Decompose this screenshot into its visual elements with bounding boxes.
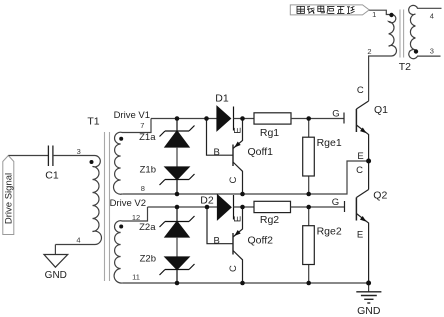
svg-text:Z1a: Z1a — [139, 132, 156, 143]
svg-text:C: C — [357, 85, 364, 96]
svg-text:G: G — [332, 108, 339, 119]
svg-text:8: 8 — [141, 184, 145, 193]
svg-text:C: C — [228, 176, 239, 183]
svg-text:3: 3 — [77, 147, 81, 156]
svg-text:3: 3 — [430, 47, 434, 56]
transistor Q1 (IGBT) — [344, 101, 369, 161]
svg-text:E: E — [357, 151, 363, 162]
svg-text:Z2a: Z2a — [139, 222, 156, 233]
transformer T2 winding 4-3 — [409, 5, 442, 58]
T2 winding 4-3 polarity dot — [414, 49, 418, 53]
svg-text:Qoff1: Qoff1 — [248, 146, 274, 158]
wire T1 pin 4 to GND — [54, 245, 56, 255]
wire between Z1a and Z1b — [176, 147, 178, 167]
capacitor C1 — [48, 146, 53, 167]
svg-text:D2: D2 — [200, 195, 214, 207]
wire Rg1 to Q1 gate — [291, 118, 344, 120]
T2 winding 1-2 polarity dot — [389, 13, 393, 17]
svg-text:C: C — [356, 165, 363, 176]
wire C1 to T1 pin 3 — [53, 155, 95, 157]
node bus voltage pennant — [290, 5, 369, 15]
svg-text:Drive V1: Drive V1 — [114, 110, 150, 121]
zener Z2a — [160, 207, 195, 237]
wire D1 cathode to Rg1 — [234, 118, 255, 120]
svg-text:E: E — [357, 230, 363, 241]
wire pin8 rail to Q1 emitter node — [122, 161, 368, 194]
wire Drive V1 rail — [151, 118, 217, 120]
svg-text:2: 2 — [367, 47, 371, 56]
svg-text:B: B — [214, 147, 220, 158]
resistor Rge2 — [308, 207, 310, 283]
zener Z1a — [160, 119, 195, 148]
transformer T1 secondary winding 12-11 — [114, 207, 147, 283]
wire D2 cathode to Rg2 — [234, 206, 255, 208]
T1 secondary 7-8 polarity dot — [119, 137, 123, 141]
svg-text:Drive V2: Drive V2 — [110, 198, 146, 209]
svg-text:Q1: Q1 — [374, 104, 388, 116]
svg-text:T1: T1 — [87, 116, 99, 128]
wire Rg2 to Q2 gate — [291, 206, 345, 208]
svg-text:GND: GND — [357, 305, 381, 317]
resistor Rge1 — [308, 119, 310, 195]
svg-text:E: E — [232, 216, 243, 222]
ground GND (power earth) — [368, 283, 370, 292]
svg-text:T2: T2 — [399, 61, 411, 73]
svg-text:Rg1: Rg1 — [260, 127, 279, 139]
svg-text:D1: D1 — [215, 93, 229, 105]
svg-text:12: 12 — [132, 213, 140, 222]
svg-text:Rg2: Rg2 — [260, 214, 279, 226]
svg-text:Z2b: Z2b — [140, 254, 156, 265]
T1 primary polarity dot — [90, 160, 94, 164]
diode D1 — [217, 107, 234, 131]
wire pennant to T2 pin 1 — [369, 10, 390, 14]
wire between Z2a and Z2b — [176, 237, 178, 257]
svg-text:Qoff2: Qoff2 — [248, 235, 274, 247]
node bus voltage text (CJK glyphs) — [297, 6, 355, 14]
transformer T1 secondary winding 7-8 — [114, 119, 151, 195]
diode D2 — [218, 195, 234, 220]
svg-text:Q2: Q2 — [373, 190, 387, 202]
wire bottom rail — [122, 282, 368, 284]
resistor Rg2 — [254, 201, 291, 212]
svg-text:B: B — [214, 235, 220, 246]
transformer T2 winding 1-2 — [369, 14, 397, 101]
wire Drive V2 rail — [148, 206, 218, 208]
resistor Rg1 — [254, 113, 291, 124]
svg-text:E: E — [232, 127, 243, 133]
svg-text:Rge2: Rge2 — [317, 226, 342, 238]
transformer T1 primary winding — [55, 155, 101, 244]
ground GND (signal) — [44, 255, 68, 268]
svg-text:1: 1 — [372, 10, 376, 19]
svg-text:Z1b: Z1b — [140, 165, 156, 176]
T1 secondary 12-11 polarity dot — [119, 225, 123, 229]
wire drive signal to C1 — [9, 155, 49, 157]
transistor Q2 (IGBT) — [345, 161, 369, 283]
svg-text:4: 4 — [430, 11, 434, 20]
svg-text:C1: C1 — [45, 170, 59, 182]
transformer T2 core — [400, 10, 404, 58]
transformer T1 core — [105, 132, 110, 281]
svg-text:7: 7 — [140, 121, 144, 130]
transistor Qoff1 (PNP) — [207, 119, 243, 195]
svg-text:Drive Signal: Drive Signal — [3, 173, 14, 224]
svg-text:4: 4 — [76, 235, 80, 244]
junction dots channel 1 — [175, 116, 371, 196]
transistor Qoff2 (PNP) — [207, 207, 243, 283]
svg-text:11: 11 — [132, 273, 140, 282]
junction dots channel 2 — [175, 205, 371, 286]
svg-text:G: G — [332, 197, 339, 208]
node Drive Signal flag — [3, 156, 14, 235]
svg-text:C: C — [228, 265, 239, 272]
svg-text:GND: GND — [45, 270, 67, 281]
zener Z1b — [160, 167, 195, 194]
svg-text:Rge1: Rge1 — [317, 137, 342, 149]
zener Z2b — [160, 257, 195, 283]
